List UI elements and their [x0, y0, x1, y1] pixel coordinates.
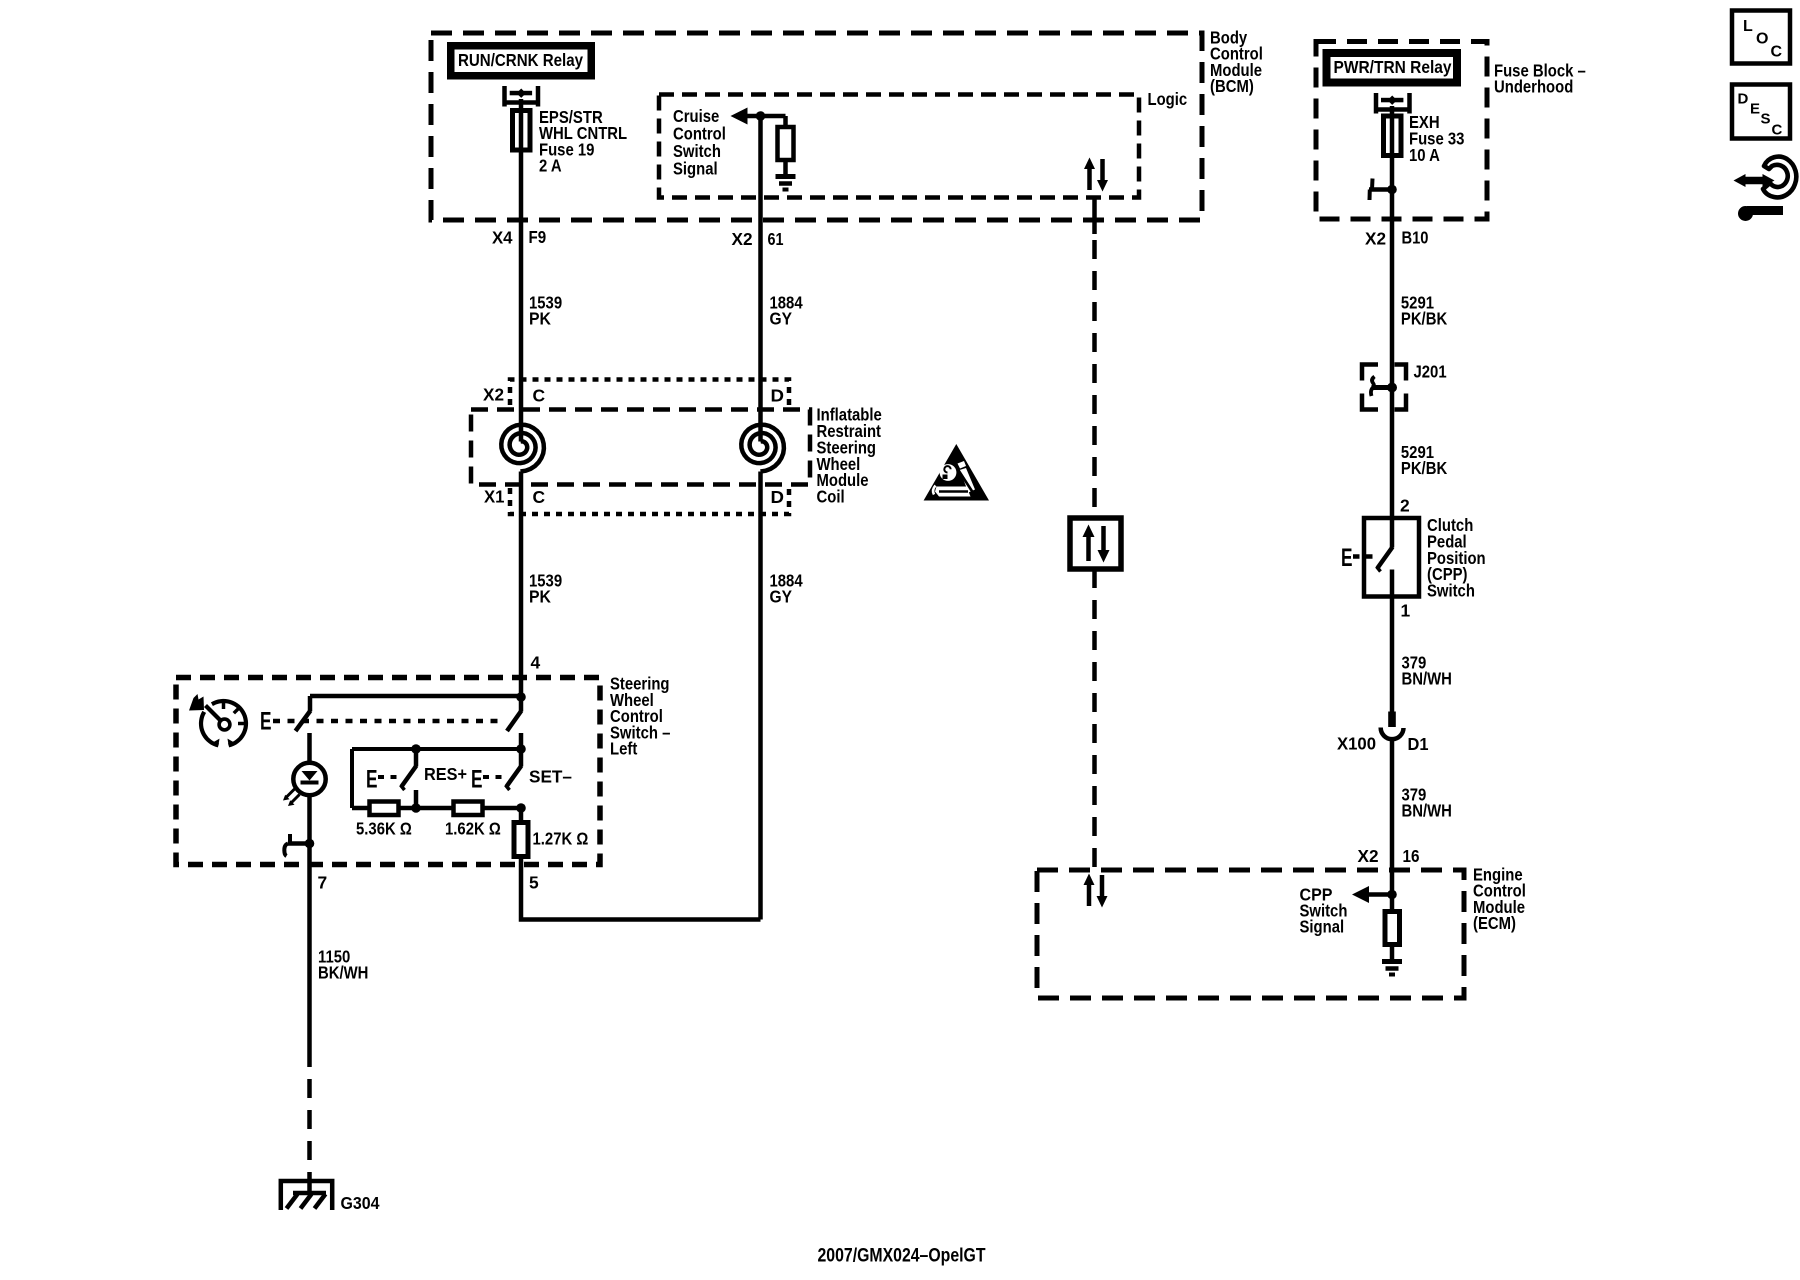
svg-text:E: E [471, 766, 483, 794]
svg-text:C: C [533, 487, 546, 507]
icon LOC box [1732, 11, 1790, 64]
LED cruise indicator [283, 763, 326, 806]
wire solid stub below logic box [1092, 197, 1097, 234]
svg-text:B10: B10 [1402, 227, 1429, 247]
switch main left (cruise on/off) [296, 696, 311, 764]
svg-text:RES+: RES+ [424, 764, 467, 784]
svg-text:Logic: Logic [1148, 89, 1188, 109]
horn flag icon [189, 694, 204, 711]
wire serial data dashed down to data box [1092, 240, 1097, 518]
node junction 4 [516, 692, 526, 702]
wire 5291 PK/BK from J201 to CPP switch [1390, 388, 1395, 548]
fuse F33 bracket (relay feed terminal) [1374, 93, 1412, 114]
switch main right (ganged) [507, 697, 522, 749]
svg-text:PWR/TRN Relay: PWR/TRN Relay [1334, 57, 1452, 77]
svg-text:PK/BK: PK/BK [1401, 458, 1448, 478]
switch box CPP solid outline [1364, 518, 1419, 597]
svg-text:C: C [533, 385, 546, 405]
svg-text:F9: F9 [529, 227, 547, 247]
node junction hook [305, 839, 315, 849]
connector X2 dotted row (coil top) [510, 380, 789, 406]
node junction at hook [1387, 185, 1397, 195]
wire left drop to resistor row [350, 749, 354, 808]
resistor 1.27K vertical [514, 823, 528, 857]
wire horizontal joining switch pin 5 to 1884 GY [521, 857, 761, 920]
svg-text:PK: PK [529, 587, 551, 607]
resistor pull-up in BCM [778, 116, 794, 175]
module box Inflatable Restraint Steering Wheel Module Coil dashed outline [471, 410, 810, 485]
node junction at SET- top [516, 744, 526, 754]
serial data double-arrow (ECM) [1084, 874, 1108, 908]
mechanical linkage dashed (E to switches) [273, 719, 504, 724]
wire 1884 GY from cruise junction down to coil [758, 116, 763, 442]
svg-text:2 A: 2 A [539, 156, 562, 176]
module box BCM (Body Control Module) dashed outline [431, 33, 1202, 220]
svg-text:(ECM): (ECM) [1473, 913, 1516, 933]
in-line connector hook (fuse block output) [1369, 179, 1392, 201]
svg-text:GY: GY [770, 309, 793, 329]
wire 1884 GY from coil down to bottom corner [758, 472, 763, 920]
CPP switch linkage dashes [1353, 554, 1376, 559]
svg-text:D: D [771, 487, 785, 507]
svg-text:X2: X2 [1358, 846, 1379, 866]
icon navigation arrow [1734, 157, 1797, 221]
svg-text:Switch: Switch [1427, 580, 1475, 600]
wire horizontal from main switch to junction 4 [310, 694, 521, 699]
svg-text:5: 5 [529, 872, 539, 892]
resistor 1.62K [454, 802, 483, 816]
svg-text:(BCM): (BCM) [1210, 76, 1254, 96]
module box Fuse Block - Underhood dashed outline [1316, 42, 1487, 220]
wire 1150 BK/WH dashed to ground [307, 1048, 312, 1181]
svg-text:Signal: Signal [1300, 917, 1345, 937]
fuse label EPS/STR WHL CNTRL Fuse 19 2A [539, 107, 627, 176]
svg-text:C: C [1771, 44, 1783, 61]
svg-text:61: 61 [768, 229, 784, 249]
svg-text:Coil: Coil [817, 487, 845, 507]
svg-text:1.62K Ω: 1.62K Ω [445, 818, 501, 838]
svg-text:O: O [1756, 31, 1768, 48]
label Steering Wheel Control Switch - Left [610, 674, 671, 759]
svg-text:Left: Left [610, 739, 637, 759]
svg-text:RUN/CRNK Relay: RUN/CRNK Relay [458, 50, 583, 70]
node junction on 1884 wire [756, 111, 766, 121]
switch CPP blade [1377, 547, 1393, 712]
serial data double-arrow (logic box) [1084, 158, 1108, 192]
svg-text:7: 7 [318, 872, 328, 892]
node junction SET- bottom [516, 803, 526, 813]
svg-text:E: E [1341, 544, 1353, 572]
svg-text:C: C [1772, 122, 1783, 139]
relay title box PWR/TRN Relay [1323, 49, 1462, 87]
svg-text:Signal: Signal [673, 159, 718, 179]
wire top rail RES/SET [352, 747, 521, 751]
splice J201 [1362, 365, 1406, 410]
module box ECM (Engine Control Module) dashed outline [1037, 870, 1464, 998]
wire 1539 PK from Fuse 19 down to coil [519, 99, 524, 442]
wire from fuse 33 down through fuse block [1390, 106, 1395, 388]
svg-text:G304: G304 [341, 1193, 380, 1213]
svg-text:J201: J201 [1414, 361, 1447, 381]
CPP signal arrow inside ECM [1352, 886, 1392, 903]
svg-text:X2: X2 [483, 384, 504, 404]
node junction at RES+ top [411, 744, 421, 754]
svg-text:X2: X2 [732, 229, 753, 249]
svg-text:E: E [260, 708, 272, 736]
svg-text:1.27K Ω: 1.27K Ω [533, 828, 589, 848]
svg-text:X100: X100 [1337, 733, 1376, 753]
ground (ECM internal) [1382, 962, 1402, 975]
svg-text:SET–: SET– [529, 766, 572, 786]
wire LED down to pin 7 [307, 795, 312, 1048]
label Body Control Module (BCM) [1210, 27, 1263, 96]
label Fuse Block - Underhood [1494, 60, 1586, 96]
svg-text:GY: GY [770, 587, 793, 607]
fuse label EXH Fuse 33 10A [1409, 112, 1465, 165]
label Clutch Pedal Position (CPP) Switch [1427, 515, 1486, 600]
ground G304 [281, 1181, 332, 1210]
serial data link box (square with arrows) [1070, 518, 1121, 569]
svg-text:X1: X1 [484, 486, 505, 506]
relay title box RUN/CRNK Relay [447, 42, 595, 80]
svg-text:10 A: 10 A [1409, 145, 1440, 165]
cruise signal arrow (points left) [731, 108, 786, 125]
fuse EXH Fuse 33 10A [1384, 116, 1402, 156]
connector X1 dotted row (coil bottom) [510, 488, 789, 514]
svg-text:16: 16 [1403, 846, 1420, 866]
svg-text:PK/BK: PK/BK [1401, 309, 1448, 329]
node junction CPP signal [1387, 890, 1397, 900]
label Inflatable Restraint Steering Wheel Module Coil [817, 405, 883, 507]
label Engine Control Module (ECM) [1473, 864, 1526, 933]
svg-text:2007/GMX024–OpelGT: 2007/GMX024–OpelGT [818, 1245, 986, 1266]
ground (BCM internal) [776, 177, 796, 190]
svg-text:L: L [1743, 18, 1753, 35]
wire serial data dashed from data box to ECM [1092, 569, 1097, 870]
gauge icon (cruise indicator) [201, 701, 246, 746]
svg-text:E: E [1750, 101, 1760, 118]
switch RES+ [378, 749, 417, 808]
logic sub-box dashed outline [659, 95, 1139, 198]
label Cruise Control Switch Signal [673, 106, 726, 179]
coil left (clockspring) spiral [501, 425, 544, 472]
icon DESC box [1732, 85, 1790, 139]
svg-text:D1: D1 [1408, 734, 1429, 754]
label CPP Switch Signal [1300, 884, 1348, 936]
switch SET- [483, 749, 522, 790]
wire 379 BN/WH from X100 to ECM [1390, 738, 1395, 895]
module box Steering Wheel Control Switch - Left dashed outline [176, 678, 600, 865]
svg-text:PK: PK [529, 309, 551, 329]
in-line connector hook at LED ground [284, 834, 309, 856]
serial data double-arrow (data box) [1083, 525, 1110, 563]
svg-text:BN/WH: BN/WH [1402, 669, 1452, 689]
in-line connector X100 D1 [1381, 712, 1404, 740]
wire 1539 PK from coil down to switch junction 4 [519, 472, 524, 698]
svg-text:5.36K Ω: 5.36K Ω [356, 818, 412, 838]
wire resistor row [352, 806, 521, 811]
svg-text:BN/WH: BN/WH [1402, 801, 1452, 821]
svg-text:4: 4 [531, 652, 541, 672]
node junction RES+ bottom [411, 803, 421, 813]
SRS caution triangle [924, 444, 989, 501]
svg-text:Underhood: Underhood [1494, 77, 1573, 97]
coil right (clockspring) spiral [741, 425, 784, 472]
svg-text:X2: X2 [1365, 228, 1386, 248]
svg-text:D: D [771, 385, 785, 405]
resistor pull-up in ECM [1385, 895, 1400, 960]
resistor 5.36K [370, 802, 399, 816]
svg-text:E: E [366, 766, 378, 794]
svg-text:BK/WH: BK/WH [318, 963, 368, 983]
svg-text:1: 1 [1401, 600, 1411, 620]
svg-text:2: 2 [1400, 495, 1410, 515]
fuse EPS/STR WHL CNTRL Fuse 19 2A [513, 111, 531, 151]
svg-text:D: D [1738, 91, 1749, 108]
svg-text:X4: X4 [492, 227, 513, 247]
svg-text:S: S [1761, 111, 1771, 128]
fuse F19 bracket (relay feed terminal) [503, 86, 541, 107]
